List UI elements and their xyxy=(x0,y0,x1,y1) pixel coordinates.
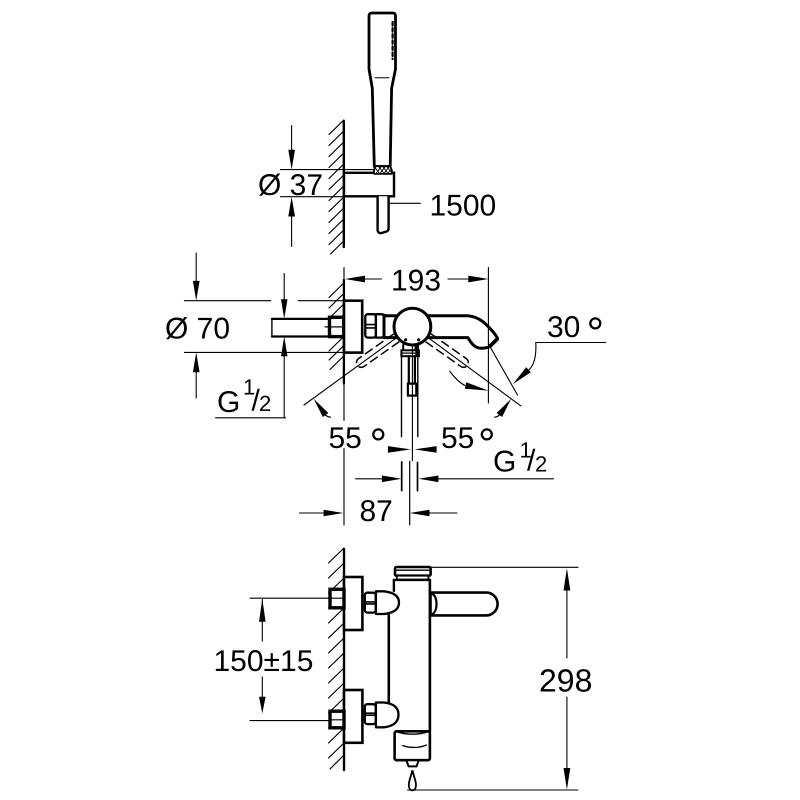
193 dimension line + arrows xyxy=(365,278,382,280)
Ø70 extension line top xyxy=(184,300,270,302)
svg-text:55: 55 xyxy=(329,422,362,455)
s-union xyxy=(376,314,392,337)
svg-text:Ø 70: Ø 70 xyxy=(165,313,230,346)
envelope line left xyxy=(401,356,403,437)
handle joint line xyxy=(375,77,389,79)
body tube + spout xyxy=(384,316,498,348)
Ø70 arrow top xyxy=(195,253,197,283)
150 extension/center line bottom xyxy=(250,720,343,722)
outlet cup xyxy=(395,731,430,760)
wall surface line xyxy=(343,549,345,770)
supply pipe nipple xyxy=(272,318,344,320)
wall surface line xyxy=(343,121,345,247)
150±15 dimension line + arrows xyxy=(261,600,263,642)
handle (side view capsule) xyxy=(431,593,498,616)
wall hatching (front view wall) xyxy=(329,283,344,370)
G1/2 right dimension arrows xyxy=(356,478,383,480)
55° left leg xyxy=(304,337,397,405)
svg-text:Ø 37: Ø 37 xyxy=(258,169,323,202)
hex nut bottom xyxy=(365,704,376,724)
union elbow top xyxy=(376,591,399,614)
collar dark edge xyxy=(415,345,419,357)
G1/2 label underline (left) xyxy=(216,417,286,419)
svg-text:°: ° xyxy=(587,309,605,358)
spray face dashes xyxy=(392,22,394,59)
lever neck xyxy=(402,345,404,351)
30° outlet angle line xyxy=(488,344,517,395)
leader line to 1500 xyxy=(390,202,421,204)
svg-text:G: G xyxy=(493,446,516,479)
diverter knob xyxy=(395,567,431,576)
MIDDLE-SECTION xyxy=(165,253,606,528)
298 extension line top xyxy=(431,566,578,568)
escutcheon (wall flange) xyxy=(344,301,362,353)
shower hose xyxy=(378,196,389,233)
G1/2 label underline (right) xyxy=(438,478,553,480)
298 dimension line + arrows xyxy=(566,590,568,658)
outlet nipple xyxy=(406,760,419,766)
dim arrow upper (points down to line) xyxy=(291,126,293,153)
conical nut (hatched) xyxy=(374,166,392,174)
water drop xyxy=(409,771,416,790)
in-wall fitting bottom (heavy) xyxy=(330,711,344,728)
cartridge cap circle xyxy=(394,308,431,345)
TOP-SECTION xyxy=(258,13,496,254)
tick left (G1/2 width) xyxy=(401,462,403,491)
wall surface / extension line (193 left) xyxy=(343,267,345,420)
ghost handle right (dashed) xyxy=(426,334,468,367)
G1/2 leader upper arrow xyxy=(283,274,285,301)
Ø70 arrow bottom xyxy=(195,371,197,398)
150 extension/center line top xyxy=(250,597,343,599)
ghost handle left (dashed) xyxy=(356,334,398,367)
envelope line right xyxy=(417,357,419,437)
svg-text:2: 2 xyxy=(259,391,271,416)
svg-text:55: 55 xyxy=(441,422,474,455)
tick right (G1/2 width) xyxy=(417,463,419,491)
87 dimension xyxy=(299,512,324,514)
wall hatching (side view wall) xyxy=(329,548,345,769)
union elbow bottom xyxy=(376,703,399,728)
lever collar xyxy=(401,350,419,356)
298 extension line bottom xyxy=(408,789,579,791)
wall hatching (top view wall) xyxy=(329,120,344,254)
escutcheon bottom xyxy=(344,690,362,743)
dimension line upper (holder top tangent) xyxy=(281,169,375,171)
dimension line lower (holder bottom tangent) xyxy=(281,196,345,198)
in-wall fitting top (heavy) xyxy=(330,589,344,608)
svg-text:298: 298 xyxy=(539,663,592,699)
shower holder bracket xyxy=(344,173,394,197)
lever centerline xyxy=(411,345,413,461)
svg-text:150±15: 150±15 xyxy=(214,645,314,678)
extension line right (193 / 30°) through spout xyxy=(487,267,489,403)
svg-text:G: G xyxy=(217,386,240,419)
dim arrow lower (points up to line) xyxy=(291,216,293,247)
axis extension line xyxy=(409,461,411,525)
BOTTOM-SECTION xyxy=(214,548,593,790)
handle boss arc xyxy=(430,593,437,615)
lever tip xyxy=(408,384,416,396)
swing arc arrow left xyxy=(325,415,331,418)
svg-text:87: 87 xyxy=(360,495,393,528)
svg-text:30: 30 xyxy=(547,311,580,344)
middle arc arrow xyxy=(450,371,465,385)
svg-text:1500: 1500 xyxy=(430,190,497,223)
bowtie arrows at centerline xyxy=(388,446,411,453)
hex connection nut xyxy=(365,314,376,337)
G1/2 leader lower arrow + stem xyxy=(281,337,288,357)
faucet body (side view) xyxy=(389,580,430,760)
55° right leg xyxy=(428,337,521,406)
svg-text:193: 193 xyxy=(391,265,441,298)
hex nut top xyxy=(365,593,376,613)
svg-text:2: 2 xyxy=(535,452,547,477)
swing arc arrow right xyxy=(495,415,500,417)
svg-text:°: ° xyxy=(370,420,388,469)
escutcheon top xyxy=(344,577,362,630)
hand shower body xyxy=(369,13,396,167)
lever rod xyxy=(408,356,410,383)
Ø70 extension line bottom xyxy=(184,351,343,353)
in-wall fitting (heavy outline) xyxy=(330,317,344,336)
